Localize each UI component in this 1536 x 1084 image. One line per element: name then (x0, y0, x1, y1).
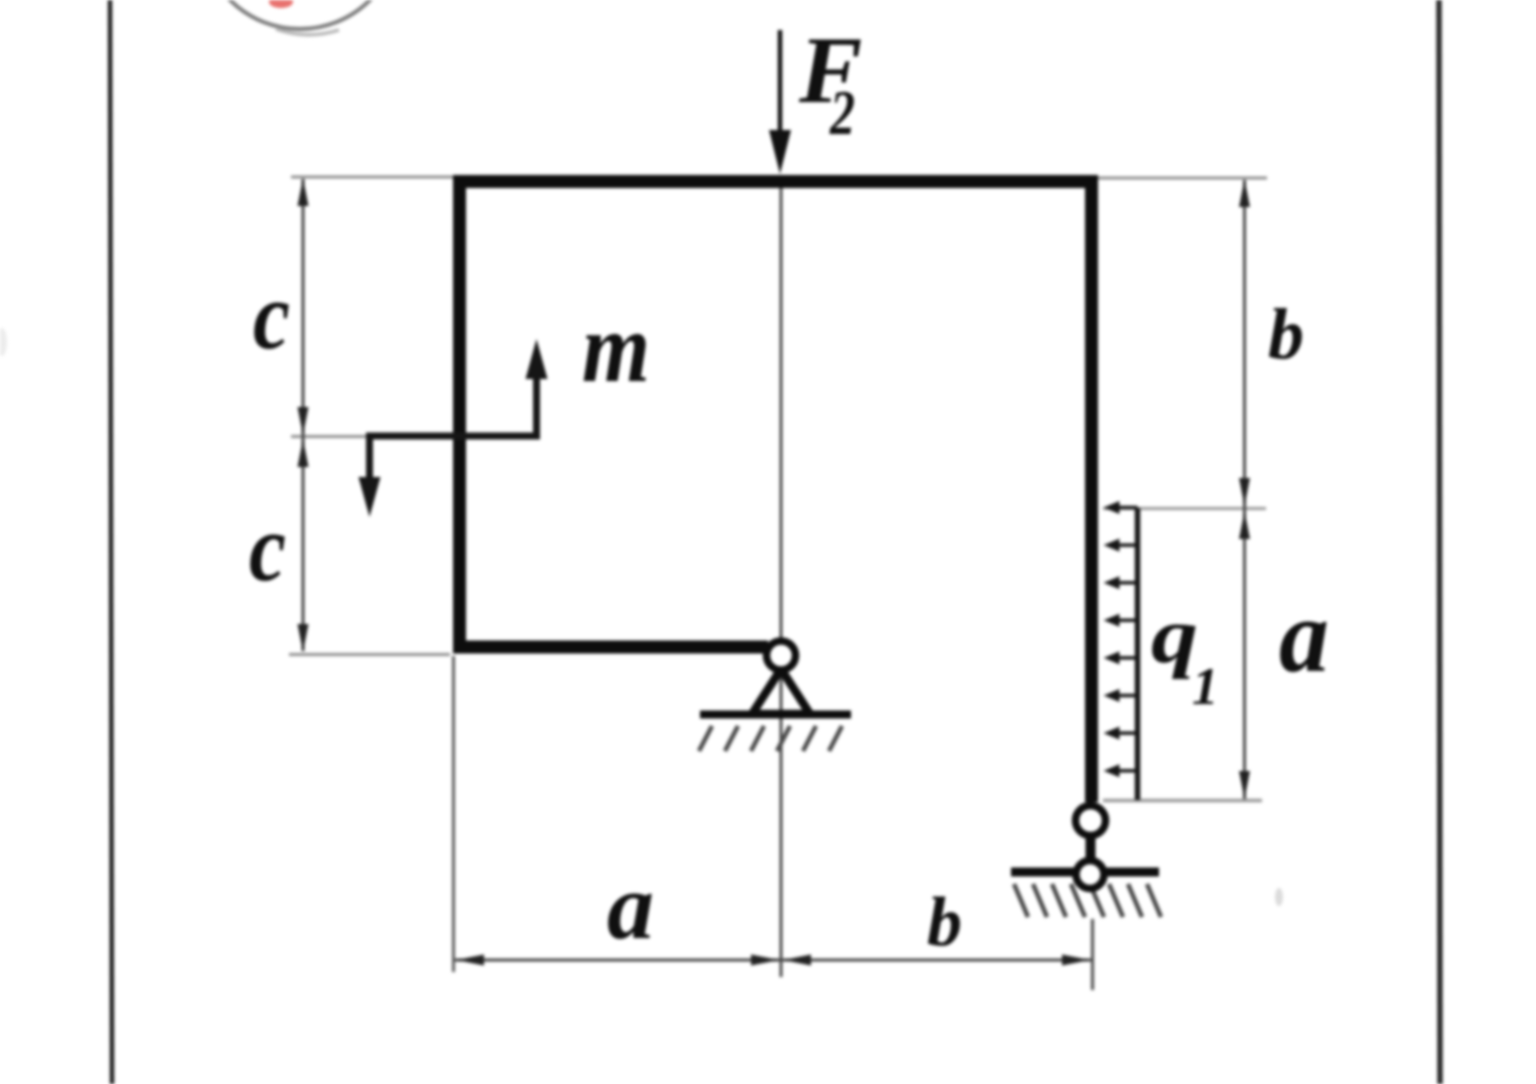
frame left column (453, 175, 466, 654)
roller support upper circle (1076, 806, 1106, 836)
pin support hatching (699, 726, 842, 751)
frame bottom member (453, 641, 768, 654)
roller support ground line (1011, 868, 1159, 877)
arrow up at top of c upper (298, 178, 309, 206)
svg-text:b: b (1268, 294, 1304, 374)
center thin line through pin support (780, 188, 783, 977)
svg-text:a: a (1279, 577, 1329, 694)
page left border line (110, 0, 112, 1084)
pin support ground line (700, 711, 851, 719)
problem-number circle (cropped at top) (201, 0, 399, 35)
bottom dimension extension line left (x=453) (452, 656, 455, 972)
moment m stepped arrow (370, 352, 537, 505)
svg-text:c: c (253, 262, 290, 369)
arrow down at bottom of b (1239, 478, 1250, 506)
svg-text:q: q (1151, 593, 1198, 680)
arrow up at top of a (1239, 511, 1250, 539)
svg-text:c: c (249, 494, 286, 601)
pin support hinge circle (767, 641, 796, 670)
arrow down at bottom of c lower (298, 624, 309, 652)
svg-text:b: b (927, 884, 962, 961)
roller support hatching (1014, 884, 1161, 917)
faint smudge right of roller (1275, 888, 1283, 906)
force F2 arrow (778, 30, 783, 140)
dimension b right: extension line top (1098, 177, 1267, 180)
svg-text:m: m (582, 292, 650, 403)
left smudge (0, 328, 7, 356)
dimension line b,a (vertical, right) (1243, 180, 1246, 799)
arrow down at bottom of c upper (298, 407, 309, 435)
roller support lower circle (1076, 861, 1104, 889)
moment arrow down (left) (359, 477, 381, 517)
roller support link bar (1086, 836, 1096, 860)
dimension c: extension line middle (291, 435, 368, 438)
arrow right at end of a bottom (751, 955, 779, 966)
arrow up at top of c lower (298, 439, 309, 467)
moment arrow up (right) (526, 339, 548, 379)
arrow up at top of b (1239, 179, 1250, 207)
page right border line (1439, 0, 1440, 1084)
dimension c lower: extension line bottom (289, 653, 450, 656)
svg-text:a: a (607, 855, 654, 959)
frame top beam (453, 175, 1098, 188)
distributed load q1 rail (1135, 508, 1141, 800)
dimension c upper: extension line top (291, 176, 455, 179)
dimension line c (vertical, left) (302, 179, 305, 651)
pin support triangle (752, 669, 810, 714)
dimension a right: extension line bottom (1103, 799, 1262, 803)
arrow left at start of a bottom (456, 955, 484, 966)
svg-text:2: 2 (829, 77, 855, 148)
bottom dimension line a,b (455, 959, 1091, 962)
frame right column (1085, 175, 1098, 802)
svg-text:1: 1 (1192, 658, 1219, 716)
red mark in circle (269, 0, 293, 8)
arrow left at start of b bottom (783, 955, 811, 966)
arrow down at bottom of a (1239, 771, 1250, 799)
bottom dimension extension line right (x=1092) (1091, 919, 1094, 990)
dimension b/a right: extension line middle (1103, 507, 1266, 510)
distributed load q1 arrows (1104, 501, 1138, 777)
arrow right at end of b bottom (1062, 955, 1090, 966)
